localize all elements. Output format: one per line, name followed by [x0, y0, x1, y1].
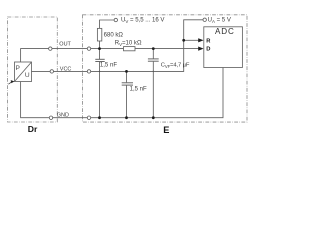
- node J5 GND/C1 junction: [98, 116, 101, 119]
- wire VCC between boxes: [54, 70, 88, 72]
- capacitor C2 bottom lead: [126, 86, 128, 118]
- wire VCC from sensor to left circle: [32, 70, 51, 72]
- capacitor C2 plates: [122, 82, 133, 84]
- svg-text:1,5 nF: 1,5 nF: [100, 63, 117, 69]
- wire 680k bottom to OUT junction: [99, 41, 101, 49]
- svg-text:D: D: [206, 47, 210, 53]
- wire OUT between boxes: [52, 48, 87, 50]
- sensor diagonal: [15, 62, 32, 82]
- capacitor C1 plates: [95, 58, 104, 60]
- ECU boundary box E (dashed): [83, 15, 248, 122]
- svg-text:GND: GND: [57, 113, 69, 119]
- node J3 D-line/C3 junction: [152, 47, 155, 50]
- pressure arrow into sensor: [11, 80, 15, 83]
- capacitor C3 4.7uF top lead: [152, 49, 154, 59]
- sensor U1 pressure cell P/U box: [15, 62, 32, 82]
- wire GND rail to ADC: [91, 68, 223, 118]
- wire OUT to RV: [91, 48, 124, 50]
- resistor R1 680k body: [97, 28, 101, 41]
- capacitor C2 1.5nF top lead: [126, 71, 128, 82]
- svg-text:VCC: VCC: [60, 66, 72, 72]
- capacitor C1 1.5nF top lead: [99, 49, 101, 59]
- node J7 GND/C3 junction: [152, 116, 155, 119]
- svg-text:Dr: Dr: [28, 124, 38, 134]
- node J1 680k/OUT junction: [98, 47, 101, 50]
- svg-text:UA = 5 V: UA = 5 V: [208, 18, 231, 24]
- node UV supply terminal circle: [114, 18, 117, 21]
- wire VCC to 5V vertical: [91, 20, 203, 72]
- wire RV to ADC D input: [135, 48, 200, 50]
- wire GND between boxes: [53, 117, 88, 119]
- node VCC terminal circle right: [87, 70, 90, 73]
- node J2 VCC/C2 junction: [125, 70, 128, 73]
- wire UV supply from 680k top: [100, 20, 115, 28]
- svg-text:CVF=4,7 µF: CVF=4,7 µF: [161, 63, 190, 69]
- arrowhead into ADC pin R: [198, 38, 203, 42]
- svg-text:UV = 5,5 ... 16 V: UV = 5,5 ... 16 V: [121, 18, 164, 24]
- node VCC terminal circle left: [50, 70, 53, 73]
- capacitor C1 bottom lead: [99, 62, 101, 118]
- node UA supply terminal circle: [203, 18, 206, 21]
- wire OUT pin vertical from sensor top: [21, 49, 49, 62]
- wire crossing artifact C3/VCC: [153, 71, 154, 72]
- svg-text:RV=10 kΩ: RV=10 kΩ: [115, 41, 142, 47]
- junction dots: [8, 38, 203, 119]
- wire R reference from 5V vertical: [184, 39, 200, 41]
- capacitor C3 bottom lead: [152, 62, 154, 118]
- arrowhead into ADC pin D: [198, 47, 203, 51]
- node OUT terminal circle left: [49, 47, 52, 50]
- node GND terminal circle left: [49, 116, 52, 119]
- resistor RV 10k body: [124, 47, 136, 51]
- svg-text:1,5 nF: 1,5 nF: [130, 87, 147, 93]
- node J6 GND/C2 junction: [125, 116, 128, 119]
- node GND terminal circle right: [87, 116, 90, 119]
- svg-text:P: P: [16, 65, 21, 72]
- sensor boundary box Dr (dashed): [8, 17, 58, 122]
- node J4 5V/R junction: [182, 39, 185, 42]
- svg-text:OUT: OUT: [59, 42, 71, 48]
- svg-text:680 kΩ: 680 kΩ: [104, 32, 124, 38]
- capacitor C3 plates: [148, 58, 159, 60]
- op-amp/ADC U2 box: [204, 27, 243, 68]
- svg-text:U: U: [25, 72, 30, 79]
- svg-text:ADC: ADC: [215, 27, 235, 36]
- wire GND from sensor bottom: [21, 82, 50, 118]
- svg-text:E: E: [163, 125, 169, 135]
- node OUT terminal circle right: [87, 47, 90, 50]
- wire crossing artifact C1/VCC: [99, 71, 101, 73]
